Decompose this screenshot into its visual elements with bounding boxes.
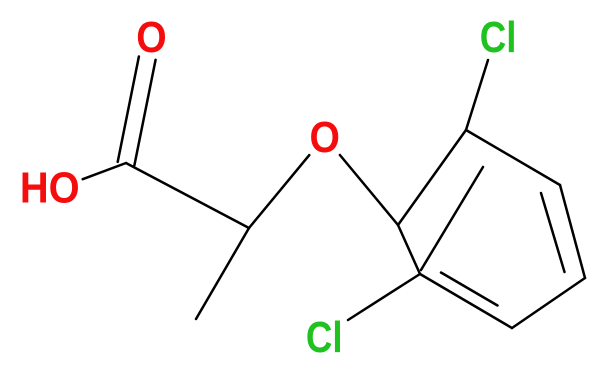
svg-text:O: O xyxy=(310,114,340,162)
svg-text:HO: HO xyxy=(20,165,80,213)
svg-text:Cl: Cl xyxy=(480,14,517,62)
svg-text:Cl: Cl xyxy=(306,314,343,362)
svg-text:O: O xyxy=(136,14,166,62)
